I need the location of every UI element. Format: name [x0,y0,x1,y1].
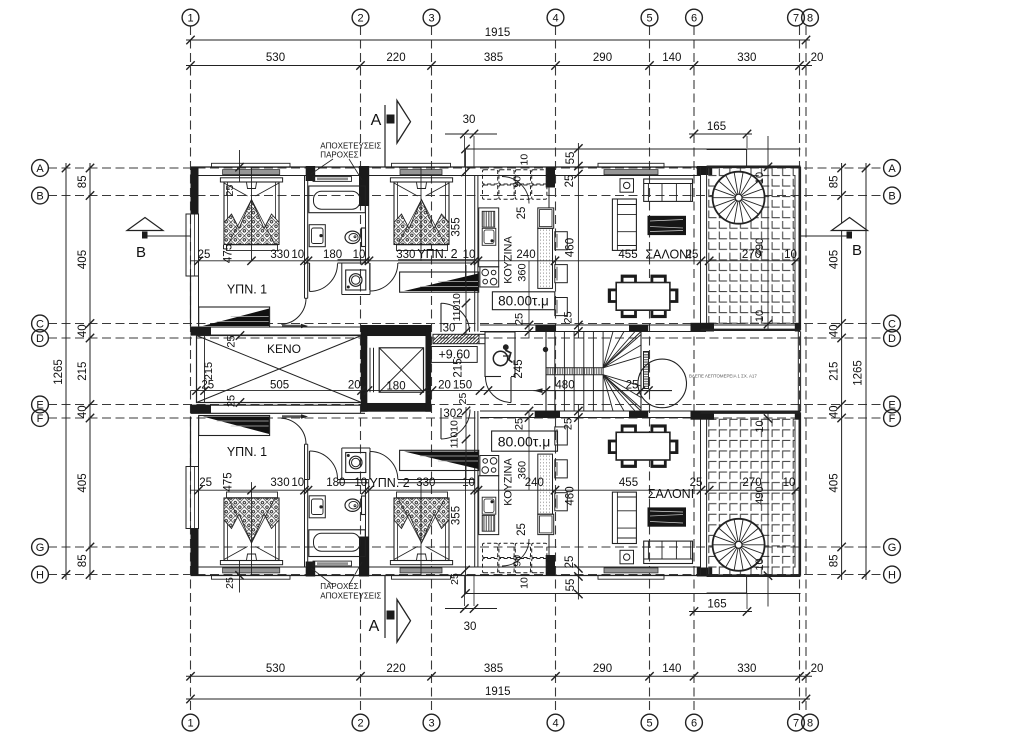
bed 1 centre extension line (bottom) [251,482,253,575]
svg-text:85: 85 [829,554,841,567]
svg-text:290: 290 [593,663,612,675]
bed bedroom 1 [220,178,282,182]
grid bubble G left [32,539,49,556]
wardrobe bedroom 2 (bottom) [400,450,479,470]
living depth extension line [577,143,579,338]
kitchen sink drainer (bottom) [482,515,495,531]
bathroom east wall (bottom) [365,480,367,537]
veranda top edge bottom unit [701,412,801,414]
svg-text:240: 240 [516,249,535,261]
kitchen sink basin [482,228,496,245]
grid line B (horizontal axis) [48,195,884,197]
grid line A (horizontal axis) [48,167,884,169]
svg-text:80.00τ.μ: 80.00τ.μ [498,434,551,450]
svg-text:8: 8 [807,718,813,730]
plumbing shaft block right (bottom) [359,537,369,577]
grid line 3 (vertical axis) [431,26,433,714]
spiral staircase (bottom) [713,519,765,571]
grid bubble 6 bottom [686,714,703,731]
svg-text:C: C [36,319,44,331]
kitchen wall column (bottom) [546,555,555,576]
svg-text:1: 1 [187,13,193,25]
ext line 475 bottom [247,486,255,494]
dimension line segments top [186,65,812,67]
veranda floor tiles [707,167,795,325]
svg-text:B: B [888,191,895,203]
svg-text:25: 25 [563,418,575,430]
bedroom2 south wall [398,259,475,261]
kitchen tall unit (bottom) [538,514,554,534]
eave overhang line (bottom) [466,593,801,595]
svg-text:25: 25 [563,311,575,323]
stair handrail dot [543,347,547,351]
stair arrow line [534,390,673,392]
svg-text:355: 355 [451,506,463,525]
svg-text:25: 25 [516,523,528,536]
grid bubble C left [32,315,49,332]
veranda east wall (bottom) [798,413,801,576]
svg-text:215: 215 [452,358,464,377]
veranda west wall [700,167,702,330]
svg-text:165: 165 [707,599,726,611]
grid bubble 8 top [802,9,819,26]
dim row line bottom unit [191,489,801,491]
svg-text:4: 4 [552,718,558,730]
window bedroom 1 (bottom) [212,575,291,579]
svg-text:490: 490 [754,486,766,504]
svg-text:10: 10 [291,249,304,261]
sofa left (two seat) (bottom) [612,492,636,543]
svg-text:5: 5 [646,718,652,730]
washing machine niche (bottom) [341,448,343,480]
dimension line 1915 top [186,39,810,41]
svg-text:F: F [37,413,44,425]
svg-text:7: 7 [793,13,799,25]
svg-text:30: 30 [463,114,476,126]
veranda bottom edge top unit [701,329,801,331]
dimension line 1915 bottom [186,698,810,700]
door bedroom 1 [281,298,306,324]
svg-text:40: 40 [77,405,89,418]
svg-text:20: 20 [438,379,451,391]
svg-text:475: 475 [223,244,235,263]
bed 1 centre extension line [251,167,253,260]
svg-text:ΣΑΛΟΝΙ: ΣΑΛΟΝΙ [648,487,694,501]
grid line F (horizontal axis) [48,417,884,419]
grid bubble 5 bottom [641,714,658,731]
area label bottom [492,431,558,451]
kitchen sink drainer [482,211,495,227]
sofa top (three seat) (bottom) [644,541,693,563]
tv cabinet (bottom) [648,507,687,526]
dim 30 bottom [445,608,497,610]
stair treads [554,332,556,412]
dim 30 top [445,133,497,135]
svg-text:85: 85 [829,175,841,188]
svg-text:180: 180 [323,249,342,261]
svg-text:B: B [36,191,43,203]
svg-text:ΚΕΝΟ: ΚΕΝΟ [267,342,301,356]
north wall lines (bottom) [191,575,707,577]
lift shaft left wall [361,325,368,412]
svg-text:4: 4 [552,13,558,25]
toilet [362,228,366,247]
bedroom2 south wall (bottom) [398,482,475,484]
middle dimension line [191,390,673,392]
grid bubble C right [884,315,901,332]
veranda top edge [707,166,801,169]
kitchen stool 2 [555,265,568,283]
plumbing shaft block left [306,166,316,181]
bathroom west wall [304,176,306,299]
grid bubble 1 bottom [182,714,199,731]
kitchen stool 2 (bottom) [555,460,568,478]
kitchen island [538,228,553,288]
svg-text:385: 385 [484,663,503,675]
wall band C lines left [191,326,366,328]
svg-text:490: 490 [754,238,766,256]
svg-text:10: 10 [754,172,766,184]
living-veranda corner column (bottom) [697,568,712,577]
kitchen west wall (bottom) [474,411,476,567]
dimension line 1265 right [865,163,867,580]
svg-text:10: 10 [353,249,366,261]
lift door slot [367,348,376,392]
plumbing shaft block left (bottom) [306,562,316,577]
dining table with chairs [621,275,637,284]
svg-text:ΥΠΝ. 2: ΥΠΝ. 2 [369,476,409,490]
grid line C (horizontal axis) [48,323,884,325]
svg-text:330: 330 [396,249,415,261]
svg-text:10: 10 [783,477,796,489]
svg-text:140: 140 [662,52,681,64]
wall band E black segments [191,405,212,413]
grid bubble A right [884,160,901,177]
svg-text:A: A [369,618,380,635]
svg-text:D: D [888,333,896,345]
wall band E lines right [480,410,801,412]
svg-text:10: 10 [754,558,766,570]
svg-text:460: 460 [565,486,577,505]
svg-text:405: 405 [77,250,89,269]
kitchen tall unit [538,208,554,228]
west wall window (bottom) [186,467,199,529]
svg-text:D: D [36,333,44,345]
west corner column [191,167,199,214]
stair direction circle [638,359,687,408]
plumbing shaft block right [359,166,369,206]
section marker A bottom [384,575,386,638]
grid bubble B left [32,187,49,204]
kitchen wall stub line (bottom) [548,535,550,555]
wc door [510,377,512,403]
bed 2 centre extension line [420,167,422,260]
svg-text:220: 220 [386,52,405,64]
door bathroom [309,263,311,292]
svg-text:10: 10 [754,310,766,322]
svg-text:330: 330 [270,249,289,261]
section marker B left [145,235,190,237]
svg-text:290: 290 [593,52,612,64]
door dim ext line top [465,265,467,335]
wardrobe bedroom 2 [400,272,479,292]
veranda slab top (bottom) [707,592,747,594]
lift shaft top wall [361,325,431,336]
kitchen counter [479,208,499,267]
grid bubble 4 top [547,9,564,26]
lift car box [379,348,423,392]
window living room [598,163,664,167]
kitchen stool 3 [555,298,568,316]
grid bubble B right [884,187,901,204]
north wall lines [191,166,707,168]
kitchen cabinet door swing [502,177,529,204]
stair enclosure [545,332,547,412]
west corner column (bottom) [191,529,199,576]
dim row line top unit [191,260,801,262]
lift shaft right wall [425,325,431,412]
wc room walls [484,332,486,378]
svg-text:20: 20 [348,379,361,391]
grid line 8 (vertical axis) [805,26,807,714]
veranda dim line vertical [767,136,769,330]
svg-text:330: 330 [737,663,756,675]
svg-text:6: 6 [691,13,697,25]
grid bubble A left [32,160,49,177]
svg-text:ΚΟΥΖΙΝΑ: ΚΟΥΖΙΝΑ [503,236,515,284]
svg-text:505: 505 [270,379,289,391]
svg-text:25: 25 [449,573,461,585]
svg-text:25: 25 [514,418,526,430]
svg-text:1915: 1915 [485,686,511,698]
svg-text:215: 215 [203,362,215,380]
veranda floor tiles (bottom) [707,418,795,576]
svg-text:25: 25 [564,175,576,188]
grid bubble F left [32,410,49,427]
kitchen stove [480,267,499,287]
toilet (bottom) [362,496,366,515]
svg-text:90: 90 [512,555,524,567]
bathroom south wall [338,259,369,261]
door bedroom 1 (bottom) [281,418,306,444]
svg-text:530: 530 [266,52,285,64]
svg-text:10: 10 [518,577,530,589]
kitchen west wall [474,176,476,332]
veranda slab top [707,149,747,151]
dimension line segments bottom [186,675,812,677]
stair wall dims [528,261,530,338]
svg-text:55: 55 [565,152,577,165]
grid bubble H left [32,566,49,583]
sofa left (two seat) [612,199,636,250]
grid line H (horizontal axis) [48,574,884,576]
spiral staircase [713,172,765,224]
kitchen stove (bottom) [480,456,499,476]
svg-text:40: 40 [829,324,841,337]
svg-text:G: G [888,542,897,554]
svg-text:150: 150 [453,379,472,391]
washbasin [309,225,325,247]
grid bubble G right [884,539,901,556]
tv cabinet [648,216,687,235]
svg-text:330: 330 [737,52,756,64]
stair central rail [546,367,603,369]
svg-text:530: 530 [266,663,285,675]
keno cross diagonal 2 [197,336,362,403]
svg-text:55: 55 [565,579,577,592]
living-veranda corner column [697,166,712,175]
entry door top unit [440,303,442,332]
window bedroom 2 (bottom) [392,575,451,579]
dimension line segments left [89,163,91,580]
bottom apartment geometry (mirrored) [186,405,801,607]
svg-text:10: 10 [354,477,367,489]
svg-text:455: 455 [618,249,637,261]
svg-text:20: 20 [811,52,824,64]
svg-text:G: G [36,542,45,554]
area label top [492,292,554,310]
svg-text:302: 302 [443,408,462,420]
ext line 475 top [247,257,255,265]
grid bubble 6 top [686,9,703,26]
grid bubble D left [32,330,49,347]
svg-text:F: F [889,413,896,425]
dimension line 1265 left [65,163,67,580]
dining table with chairs (bottom) [621,459,637,468]
bed bedroom 1 (bottom) [220,561,282,565]
lift interior [367,336,425,403]
svg-text:90: 90 [512,176,524,188]
svg-text:25: 25 [457,393,469,405]
svg-text:ΣΑΛΟΝΙ: ΣΑΛΟΝΙ [645,248,691,262]
svg-text:3: 3 [428,718,434,730]
svg-text:ΠΑΡΟΧΕΣ: ΠΑΡΟΧΕΣ [320,582,358,591]
veranda top edge (bottom) [707,574,801,577]
wall band E lines left [191,404,366,406]
svg-text:330: 330 [270,477,289,489]
svg-text:25: 25 [226,335,238,347]
svg-text:25: 25 [224,185,236,197]
kitchen sink basin (bottom) [482,497,496,514]
svg-text:25: 25 [626,379,639,391]
svg-text:215: 215 [77,362,89,381]
window living room (bottom) [598,575,664,579]
door bathroom (bottom) [309,451,311,480]
kitchen counter (bottom) [479,476,499,535]
grid bubble 8 bottom [802,714,819,731]
svg-text:25: 25 [514,313,526,325]
grid bubble F right [884,410,901,427]
kitchen wall column [546,167,555,188]
svg-text:355: 355 [451,217,463,236]
bed bedroom 2 (bottom) [390,561,452,565]
grid line G (horizontal axis) [48,546,884,548]
keno cross diagonal 1 [197,336,362,403]
washing machine (bottom) [346,453,366,473]
grid bubble 3 top [423,9,440,26]
grid bubble 2 top [352,9,369,26]
window bathroom (bottom) [313,561,352,566]
ext line 355 top [465,149,467,282]
svg-text:330: 330 [416,477,435,489]
dim 165 top [689,133,752,135]
bathroom east wall [365,206,367,263]
grid bubble 1 top [182,9,199,26]
veranda dim line vertical (bottom) [767,413,769,607]
lift shaft bottom wall [361,403,431,412]
wheelchair symbol [493,351,507,365]
svg-text:140: 140 [662,663,681,675]
sofa top (three seat) [644,179,693,201]
svg-text:165: 165 [707,121,726,133]
svg-text:215: 215 [829,362,841,381]
svg-text:7: 7 [793,718,799,730]
side table with lamp [620,179,634,193]
wardrobe bedroom 1 [199,307,270,327]
svg-text:10: 10 [784,249,797,261]
grid line 7 (vertical axis) [799,26,801,714]
kitchen stool 3 (bottom) [555,427,568,445]
grid bubble E right [884,396,901,413]
svg-text:25: 25 [224,577,236,589]
veranda east wall [798,167,801,330]
bathroom south wall (bottom) [338,482,369,484]
bathtub (bottom) [309,530,366,557]
bed 2 centre extension line (bottom) [420,482,422,575]
svg-text:405: 405 [77,473,89,492]
svg-text:30: 30 [443,323,456,335]
svg-text:1265: 1265 [853,360,865,386]
door dim ext line bottom [465,407,467,480]
svg-text:2: 2 [357,718,363,730]
grid bubble H right [884,566,901,583]
svg-text:B: B [136,244,146,261]
svg-text:30: 30 [464,621,477,633]
kitchen stool 1 [555,232,568,250]
svg-text:ΥΠΝ. 2: ΥΠΝ. 2 [417,247,457,261]
stair landing rail section [644,352,649,389]
svg-text:360: 360 [517,461,529,479]
window bedroom 2 [392,163,451,167]
svg-text:1: 1 [187,718,193,730]
svg-text:405: 405 [829,250,841,269]
grid bubble E left [32,396,49,413]
grid bubble 4 bottom [547,714,564,731]
grid line 6 (vertical axis) [693,26,695,714]
svg-text:H: H [888,570,896,582]
east boundary wall middle [797,332,799,412]
svg-text:405: 405 [829,473,841,492]
svg-text:10: 10 [518,154,530,166]
svg-text:220: 220 [386,663,405,675]
hatched low wall [433,334,479,343]
grid line 1 (vertical axis) [190,26,192,714]
svg-text:10: 10 [451,293,463,305]
svg-text:2: 2 [357,13,363,25]
svg-text:180: 180 [386,381,405,393]
svg-text:40: 40 [829,405,841,418]
wall band C black segments [191,327,212,335]
svg-text:ΑΠΟΧΕΤΕΥΣΕΙΣ: ΑΠΟΧΕΤΕΥΣΕΙΣ [320,142,381,151]
svg-text:B: B [852,242,862,259]
lift cross [379,348,423,392]
svg-text:110: 110 [451,304,463,321]
section marker A top [384,105,386,167]
svg-text:10: 10 [291,477,304,489]
grid bubble 7 top [788,9,805,26]
svg-text:ΚΟΥΖΙΝΑ: ΚΟΥΖΙΝΑ [503,458,515,506]
grid line E (horizontal axis) [48,404,884,406]
